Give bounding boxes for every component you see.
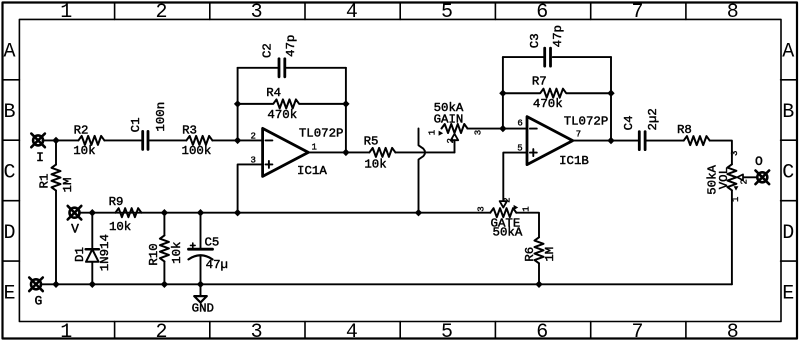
svg-text:1M: 1M xyxy=(543,247,557,262)
svg-text:4: 4 xyxy=(346,321,358,341)
capacitor C3 xyxy=(528,25,565,66)
svg-text:E: E xyxy=(782,282,794,305)
junction R7 right xyxy=(607,90,614,97)
svg-text:V: V xyxy=(71,222,79,237)
wire VOL wiper to O xyxy=(743,176,758,178)
svg-text:R1: R1 xyxy=(38,174,52,189)
svg-text:4: 4 xyxy=(346,1,358,24)
svg-text:8: 8 xyxy=(727,1,739,24)
svg-text:B: B xyxy=(3,101,15,124)
junction rail D1 xyxy=(89,281,96,288)
resistor R3 xyxy=(182,123,213,158)
capacitor C2 xyxy=(260,35,298,77)
junction gate C5 xyxy=(197,209,204,216)
terminal I xyxy=(31,134,45,165)
svg-text:I: I xyxy=(36,150,44,165)
diode D1 1N914 xyxy=(73,213,112,285)
junction IC1B pin6 xyxy=(499,125,506,132)
svg-text:47p: 47p xyxy=(551,25,565,47)
svg-text:C: C xyxy=(3,162,15,185)
wire C3 to feedback B right xyxy=(553,56,611,58)
wire R2 to C1 xyxy=(104,139,141,141)
svg-text:TL072P: TL072P xyxy=(564,115,609,129)
svg-text:VOL: VOL xyxy=(717,167,731,189)
svg-text:10k: 10k xyxy=(73,144,95,158)
svg-text:2: 2 xyxy=(155,1,167,24)
resistor R7 xyxy=(503,75,611,112)
wire R8 to VOL pin3 xyxy=(710,141,732,165)
wire gate net xyxy=(79,212,490,214)
svg-text:1: 1 xyxy=(311,143,316,153)
wire GAIN pin3 to IC1B pin6 xyxy=(468,128,528,130)
svg-text:3: 3 xyxy=(730,151,740,156)
svg-text:2: 2 xyxy=(503,197,513,202)
svg-text:7: 7 xyxy=(576,130,581,140)
svg-text:R7: R7 xyxy=(532,75,547,89)
junction IC1B output xyxy=(607,137,614,144)
junction gate R10 xyxy=(161,209,168,216)
wire feedback A left vertical xyxy=(237,68,239,141)
potentiometer GAIN 50kA xyxy=(428,101,484,153)
terminal V xyxy=(68,206,82,237)
svg-text:C3: C3 xyxy=(528,33,542,48)
svg-text:3: 3 xyxy=(477,206,487,211)
svg-text:3: 3 xyxy=(251,321,263,341)
svg-text:R8: R8 xyxy=(677,123,692,137)
svg-text:TL072P: TL072P xyxy=(299,127,344,141)
wire IC1A pin3 to gate net xyxy=(238,164,263,212)
wire feedback B right vertical xyxy=(610,57,612,141)
svg-text:E: E xyxy=(3,282,15,305)
wire GAIN pin1 vertical with hop xyxy=(419,129,426,213)
wire feedback A top to C2 xyxy=(238,67,278,69)
junction rail R1 xyxy=(52,281,59,288)
wire C1 to R3 xyxy=(150,139,187,141)
svg-text:8: 8 xyxy=(727,321,739,341)
svg-text:3: 3 xyxy=(473,130,483,135)
svg-text:10k: 10k xyxy=(170,242,184,264)
junction R4 right xyxy=(342,100,349,107)
svg-text:1: 1 xyxy=(60,1,72,24)
resistor R6 xyxy=(523,237,557,263)
svg-text:1: 1 xyxy=(731,197,741,202)
svg-text:IC1A: IC1A xyxy=(297,164,327,178)
svg-text:C4: C4 xyxy=(622,115,636,130)
svg-text:47µ: 47µ xyxy=(206,258,228,272)
svg-text:100k: 100k xyxy=(182,144,212,158)
svg-text:GND: GND xyxy=(192,302,214,316)
svg-text:470k: 470k xyxy=(533,97,563,111)
wire feedback B top to C3 xyxy=(503,56,544,58)
svg-text:C5: C5 xyxy=(204,235,219,249)
wire C4 to R8 xyxy=(647,140,684,142)
svg-text:3: 3 xyxy=(251,1,263,24)
capacitor C4 xyxy=(622,108,660,149)
wire feedback B left vertical xyxy=(502,57,504,129)
svg-text:2: 2 xyxy=(250,131,255,141)
wire R3 to IC1A pin2 xyxy=(212,139,262,141)
potentiometer GATE 50kA xyxy=(477,197,532,239)
svg-text:R2: R2 xyxy=(74,123,89,137)
svg-text:C1: C1 xyxy=(129,117,143,132)
svg-text:A: A xyxy=(782,41,794,64)
svg-text:2: 2 xyxy=(155,321,167,341)
terminal O xyxy=(755,154,769,184)
svg-text:R3: R3 xyxy=(182,123,197,137)
resistor R1 xyxy=(38,140,76,284)
svg-text:1: 1 xyxy=(60,321,72,341)
svg-text:R6: R6 xyxy=(523,247,537,262)
svg-text:10k: 10k xyxy=(364,158,386,172)
junction R4 left xyxy=(234,100,241,107)
svg-text:R9: R9 xyxy=(109,195,124,209)
wire GATE pin1 to R6 xyxy=(516,213,539,238)
wire ground rail xyxy=(41,283,732,285)
svg-text:6: 6 xyxy=(536,321,548,341)
ground symbol GND xyxy=(192,284,214,315)
svg-text:D1: D1 xyxy=(73,247,87,262)
svg-text:5: 5 xyxy=(441,1,453,24)
junction rail R10 xyxy=(161,281,168,288)
svg-text:G: G xyxy=(34,294,42,309)
junction R7 left xyxy=(499,90,506,97)
svg-text:C: C xyxy=(782,162,794,185)
svg-text:O: O xyxy=(755,154,763,169)
wire input net I to R2 xyxy=(43,139,79,141)
svg-text:C2: C2 xyxy=(260,43,274,58)
svg-text:7: 7 xyxy=(631,1,643,24)
resistor R5 xyxy=(364,135,396,172)
svg-text:5: 5 xyxy=(441,321,453,341)
svg-text:D: D xyxy=(782,222,794,245)
svg-text:D: D xyxy=(3,222,15,245)
junction feedback A input xyxy=(234,137,241,144)
svg-text:100n: 100n xyxy=(154,102,168,132)
wire feedback A right vertical xyxy=(345,68,347,153)
resistor R8 xyxy=(677,123,710,145)
svg-text:R10: R10 xyxy=(147,243,161,265)
junction rail R6 xyxy=(535,281,542,288)
resistor R9 xyxy=(109,195,142,234)
capacitor C1 xyxy=(129,102,168,150)
op-amp IC1A xyxy=(250,127,343,179)
wire R5 to GAIN wiper xyxy=(395,151,454,153)
svg-text:5: 5 xyxy=(517,143,522,153)
wire IC1A output to R5 xyxy=(308,151,369,153)
wire IC1B output to C4 xyxy=(573,140,639,142)
wire C2 to feedback A right xyxy=(286,67,346,69)
svg-text:1: 1 xyxy=(428,130,438,135)
capacitor C5 47u electrolytic xyxy=(189,213,228,285)
svg-text:7: 7 xyxy=(631,321,643,341)
svg-text:2: 2 xyxy=(740,179,750,184)
junction gate D1 xyxy=(89,209,96,216)
svg-text:470k: 470k xyxy=(267,108,297,122)
svg-text:10k: 10k xyxy=(109,220,131,234)
terminal G xyxy=(29,278,43,309)
wire R6 to ground rail xyxy=(538,263,540,284)
svg-text:A: A xyxy=(3,41,15,64)
junction gate IC1A pin3 xyxy=(234,209,241,216)
svg-text:6: 6 xyxy=(536,1,548,24)
junction gate GAIN pin1 xyxy=(415,209,422,216)
svg-text:3: 3 xyxy=(250,156,255,166)
svg-text:1M: 1M xyxy=(61,178,75,193)
wire IC1B pin5 to GATE wiper xyxy=(503,153,527,202)
resistor R4 xyxy=(238,86,346,122)
svg-text:R4: R4 xyxy=(266,86,281,100)
svg-text:1: 1 xyxy=(521,206,531,211)
svg-text:R5: R5 xyxy=(364,135,379,149)
op-amp IC1B xyxy=(517,115,608,168)
resistor R10 xyxy=(147,213,184,285)
junction input R1 xyxy=(52,137,59,144)
svg-text:1N914: 1N914 xyxy=(98,234,112,271)
svg-text:GAIN: GAIN xyxy=(434,113,464,127)
resistor R2 xyxy=(73,123,104,158)
junction rail GND xyxy=(197,281,204,288)
svg-text:6: 6 xyxy=(517,119,522,129)
svg-text:IC1B: IC1B xyxy=(559,154,589,168)
wire VOL pin1 to ground rail xyxy=(731,190,733,284)
svg-text:2: 2 xyxy=(446,138,456,143)
junction IC1A output xyxy=(342,149,349,156)
svg-text:47p: 47p xyxy=(284,35,298,57)
svg-text:B: B xyxy=(782,101,794,124)
svg-text:50kA: 50kA xyxy=(493,226,523,240)
svg-text:2µ2: 2µ2 xyxy=(646,108,660,130)
potentiometer VOL 50kA xyxy=(706,151,750,202)
